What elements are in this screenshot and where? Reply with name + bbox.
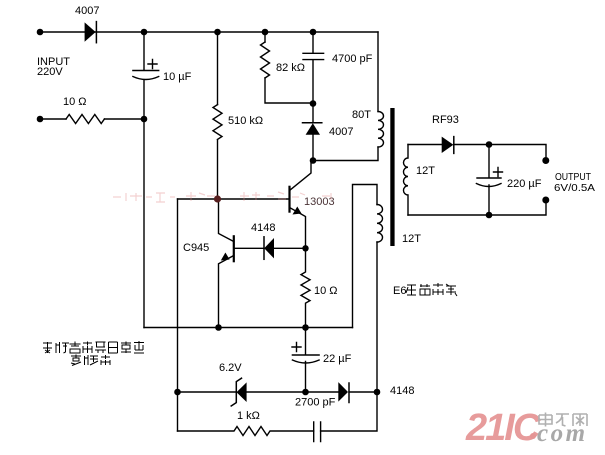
svg-text:4007: 4007 <box>329 126 353 138</box>
node zener right <box>374 389 381 396</box>
svg-text:12T: 12T <box>402 233 421 245</box>
logo dot <box>530 433 536 439</box>
capacitor 22uF plates <box>292 355 319 363</box>
node top b <box>214 29 221 36</box>
svg-text:10 Ω: 10 Ω <box>63 96 87 108</box>
node secondary top <box>486 141 493 148</box>
capacitor 10uF plates <box>133 71 159 80</box>
label converter hanzi line2 <box>71 355 81 366</box>
diode D2 4007 snubber triangle <box>306 123 320 135</box>
svg-text:E6: E6 <box>393 285 406 297</box>
node output plus terminal <box>542 157 549 164</box>
inductor 12T secondary winding <box>403 145 408 216</box>
wire 82k column <box>265 32 313 103</box>
capacitor 4700pF plates <box>303 53 324 59</box>
wire collector row <box>313 147 378 161</box>
node input top <box>37 29 44 36</box>
capacitor 220uF plates <box>476 178 501 187</box>
node zener mid <box>302 389 309 396</box>
label E6 core hanzi <box>406 285 416 295</box>
svg-text:80T: 80T <box>352 109 371 121</box>
wire 4700pF column <box>312 32 314 161</box>
capacitor 10uF plus <box>148 60 157 69</box>
wire bottom mid rail <box>144 327 353 329</box>
logo dianziwang hanzi <box>539 413 587 427</box>
transformer core <box>390 108 394 246</box>
wire 80T drop <box>377 32 379 112</box>
wire secondary bottom <box>408 204 546 216</box>
wire 510k column <box>217 32 219 199</box>
svg-text:10 µF: 10 µF <box>163 71 192 83</box>
wire left lower column x177.5 <box>177 199 179 431</box>
svg-text:1 kΩ: 1 kΩ <box>237 410 260 422</box>
wire bottom rail right <box>321 392 377 431</box>
svg-text:82 kΩ: 82 kΩ <box>276 62 305 74</box>
node base junction maroon <box>214 195 221 202</box>
node input row2 <box>37 116 44 123</box>
diode D2 bar <box>303 122 322 124</box>
inductor 12T feedback winding loop <box>353 185 378 393</box>
svg-text:RF93: RF93 <box>432 114 459 126</box>
wire input row2 right <box>105 118 145 120</box>
svg-text:4148: 4148 <box>390 385 414 397</box>
diode D1 4007 input triangle <box>85 22 96 41</box>
capacitor 220uF leads <box>488 145 490 216</box>
node emitter junction <box>302 245 308 251</box>
node collector junction <box>310 157 317 164</box>
zener 6.2V row wires <box>178 391 378 393</box>
diode 4148 base triangle <box>264 238 274 258</box>
svg-text:4700 pF: 4700 pF <box>332 53 373 65</box>
resistor 1k <box>178 427 314 436</box>
resistor 10 ohm emitter <box>301 252 310 328</box>
svg-text:21IC: 21IC <box>465 407 541 449</box>
svg-text:22 µF: 22 µF <box>323 353 352 365</box>
wire secondary top <box>408 145 546 157</box>
svg-text:10 Ω: 10 Ω <box>314 285 338 297</box>
resistor 510k <box>213 105 222 140</box>
node 82k junction <box>310 100 317 107</box>
node output minus terminal <box>542 197 549 204</box>
node zener left <box>174 389 181 396</box>
node 22uF top <box>302 324 309 331</box>
watermark streaks <box>113 192 331 202</box>
node top c <box>262 29 269 36</box>
inductor 80T winding <box>378 112 384 148</box>
transistor Q1 13003 body <box>288 187 290 212</box>
svg-text:510 kΩ: 510 kΩ <box>228 115 263 127</box>
resistor 10 ohm input <box>66 115 104 124</box>
svg-text:4007: 4007 <box>75 5 99 17</box>
wire top rail <box>40 31 378 33</box>
node secondary bottom <box>486 212 493 219</box>
diode 4148 row wires <box>234 247 306 249</box>
resistor 82k <box>261 42 270 78</box>
svg-text:C945: C945 <box>183 242 209 254</box>
diode RF93 triangle <box>442 137 454 153</box>
zener 6.2V bar with tips <box>231 378 241 406</box>
node top d <box>310 29 317 36</box>
diode D1 bar <box>95 22 97 43</box>
capacitor 220uF plus <box>494 168 503 177</box>
svg-text:13003: 13003 <box>304 196 335 208</box>
node top a <box>141 29 148 36</box>
transistor Q2 C945 body <box>233 236 235 261</box>
zener 6.2V triangle <box>237 382 247 402</box>
svg-text:2700 pF: 2700 pF <box>295 397 336 409</box>
svg-text:220 µF: 220 µF <box>507 178 542 190</box>
capacitor 22uF leads <box>305 328 307 393</box>
capacitor 22uF plus <box>292 343 301 352</box>
svg-text:4148: 4148 <box>251 222 275 234</box>
svg-text:12T: 12T <box>416 165 435 177</box>
wire left column x144 <box>143 32 145 328</box>
svg-text:com: com <box>537 420 588 447</box>
inductor 12T feedback bumps <box>377 205 383 243</box>
label converter hanzi line1 <box>43 342 52 353</box>
diode 4148 bottom bar <box>348 383 350 403</box>
svg-text:6.2V: 6.2V <box>219 362 242 374</box>
node emitter bottom <box>215 324 222 331</box>
diode 4148 base bar <box>263 237 265 259</box>
transistor Q1 13003 emitter arrow <box>293 207 302 215</box>
diode 4148 bottom triangle <box>338 382 348 402</box>
svg-text:220V: 220V <box>37 66 63 78</box>
node row2 right <box>141 116 148 123</box>
diode RF93 bar <box>453 137 455 154</box>
transistor Q2 C945 emitter arrow <box>221 253 230 261</box>
capacitor 2700pF plates <box>314 422 321 442</box>
svg-text:6V/0.5A: 6V/0.5A <box>554 182 595 194</box>
wire input row2 left <box>40 118 66 120</box>
